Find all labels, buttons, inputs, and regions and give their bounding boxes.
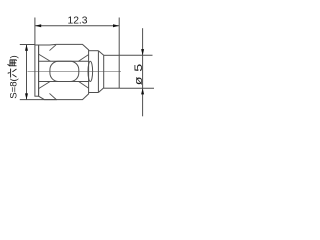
node phi5 down arrowhead: [141, 49, 144, 55]
wire: hex small diagonal to bottom edge: [50, 93, 57, 99]
svg-text:): ): [9, 55, 20, 58]
node phi5 up arrowhead: [141, 88, 144, 94]
wire: hex small diagonal to top edge: [50, 45, 57, 51]
centerline (axis): [28, 70, 122, 72]
wire: S dimension vertical line: [26, 45, 28, 100]
wire: hex inner horizontal upper: [39, 60, 89, 62]
hex nut body outline: [39, 44, 89, 99]
collar between hex and cylinder: [88, 51, 98, 93]
wire: S bottom extension line: [20, 99, 57, 101]
node down arrowhead of S: [25, 93, 28, 99]
collar chamfer to cylinder: [98, 51, 103, 93]
wire: hex interior diagonal bottom-right: [78, 81, 88, 88]
wire: S top extension line: [20, 44, 35, 46]
node left arrowhead of 12.3: [35, 24, 41, 27]
kanji kaku: [8, 60, 17, 67]
kanji roku: [8, 69, 17, 78]
washer flange at left: [35, 45, 39, 96]
cylinder body: [104, 55, 120, 88]
wire: top dimension line 12.3: [35, 25, 119, 27]
svg-text:S=8(: S=8(: [9, 77, 20, 98]
wire: left extension line of 12.3: [34, 18, 36, 45]
wire: hex interior diagonal top-right: [78, 55, 88, 62]
wire: hex interior diagonal top-left: [39, 54, 51, 61]
hex middle flat stadium: [50, 61, 79, 81]
node right arrowhead of 12.3: [113, 24, 119, 27]
wire: hex interior diagonal bottom-left: [39, 81, 51, 88]
wire: right extension line of 12.3 / cylinder right face: [118, 18, 120, 89]
node label phi5 rotated: [133, 59, 145, 85]
svg-text:ø5: ø5: [133, 59, 145, 85]
wire: hex inner horizontal lower: [39, 81, 89, 83]
svg-text:12.3: 12.3: [67, 15, 87, 26]
wire: phi5 top extension line: [119, 54, 152, 56]
wire: phi5 dimension vertical line: [142, 28, 144, 116]
wire: phi5 bottom extension line: [119, 87, 154, 89]
node label S=8(hex) rotated: [8, 55, 20, 99]
node up arrowhead of S: [25, 45, 28, 51]
